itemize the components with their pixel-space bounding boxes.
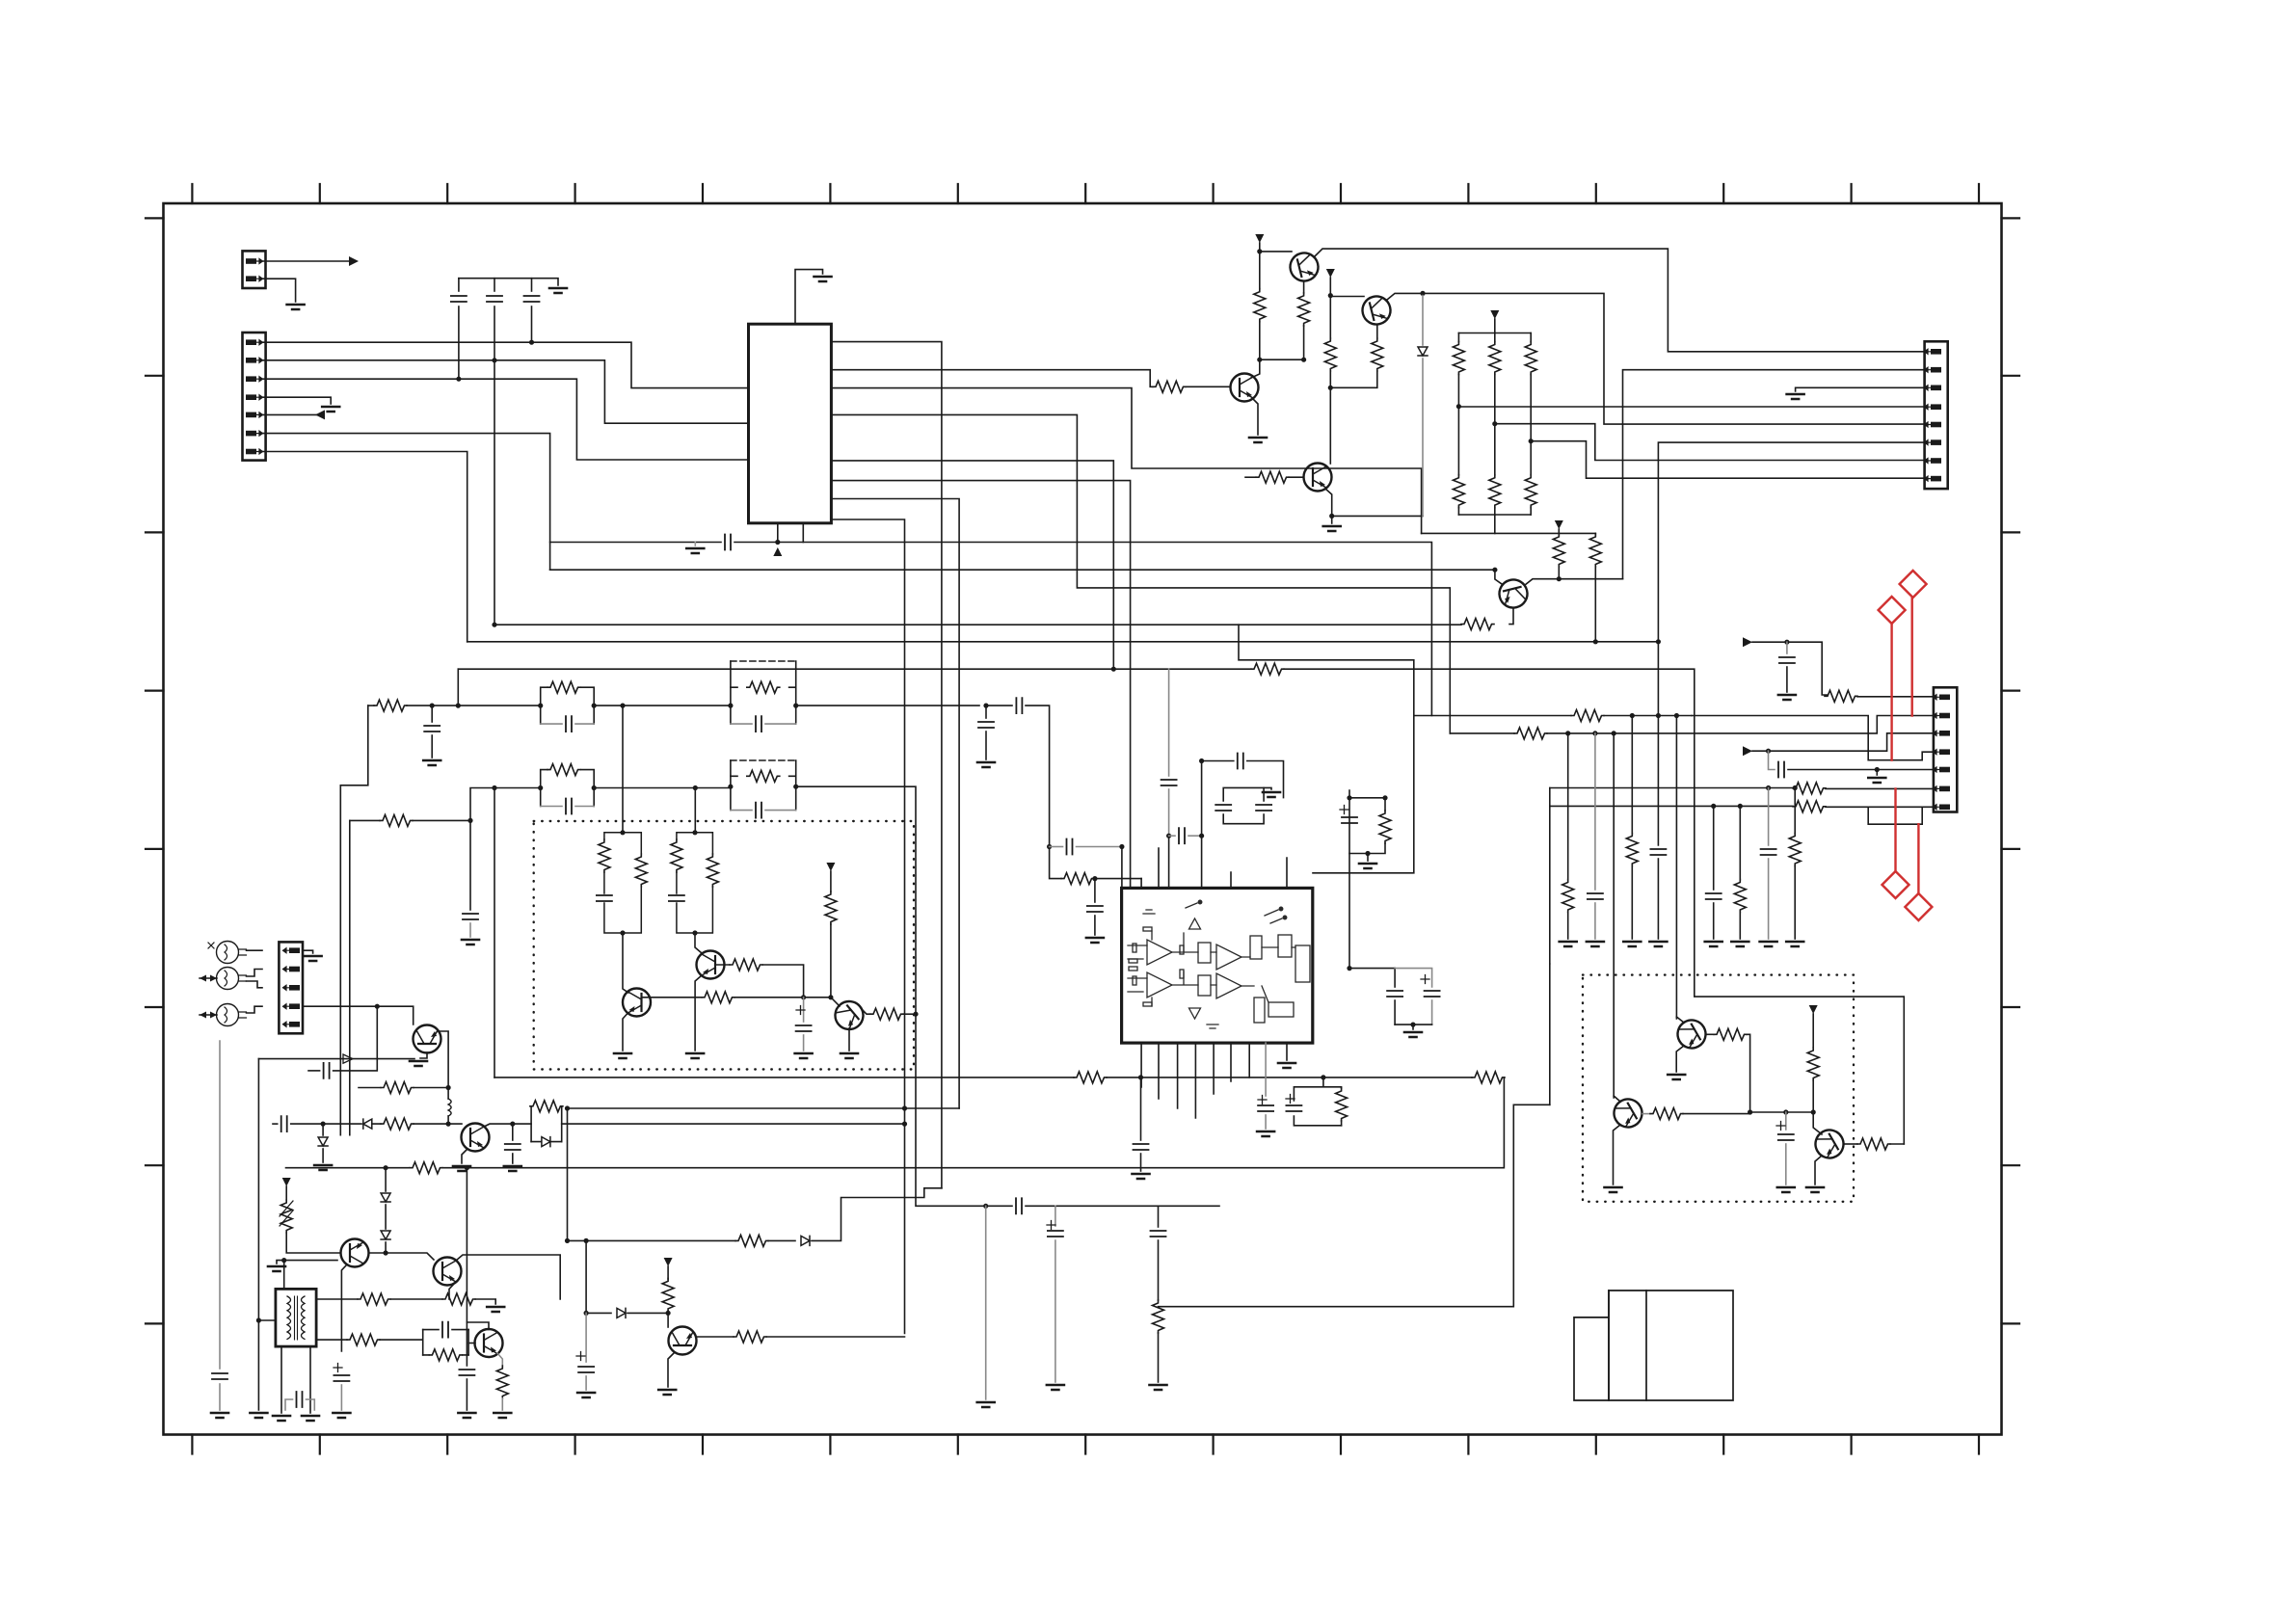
wire CN2 pin6 down to lower bus — [263, 434, 550, 571]
node — [492, 785, 496, 790]
red wire F3 — [1894, 788, 1896, 871]
ground — [549, 288, 567, 293]
resistor R12 — [1530, 441, 1532, 475]
IC IC1 — [749, 324, 832, 523]
node — [1783, 1109, 1788, 1114]
node — [775, 540, 780, 545]
ground stub IC2 — [1286, 1043, 1288, 1060]
wire resistor bottom bus — [1458, 515, 1531, 533]
wire Q8 emitter ground — [462, 1149, 467, 1163]
pin 2 of CN3 — [1925, 367, 1942, 373]
resistor R39 — [1472, 1072, 1505, 1083]
resistor R13 — [1461, 619, 1494, 630]
wire P2 down — [1329, 278, 1331, 296]
node — [1565, 731, 1570, 735]
transistor Q10 — [434, 1258, 462, 1286]
ground — [814, 277, 832, 281]
ground — [333, 1413, 350, 1418]
wire IC1 top pin to ground — [795, 270, 823, 325]
power arrow P6 — [826, 863, 835, 871]
block rect5 — [1295, 945, 1310, 982]
capacitor C14 — [308, 1070, 320, 1072]
wire Q3 emitter to ground — [1252, 398, 1258, 435]
wire Q6 base from bus — [1495, 570, 1502, 584]
pin 2 of CN4 — [1934, 713, 1951, 719]
node — [384, 1165, 388, 1170]
dotted block DB1 — [534, 821, 914, 1070]
ground — [1086, 938, 1104, 943]
wire bus 591 — [550, 569, 1495, 571]
ground — [1257, 1131, 1274, 1136]
wire 817 bus left — [470, 788, 541, 821]
ground — [1778, 695, 1796, 700]
node — [375, 1004, 380, 1009]
capacitor C12 — [669, 895, 684, 901]
wire W2 stepped — [1159, 1104, 1550, 1306]
capacitor C3 — [531, 279, 533, 291]
capacitor C4 — [725, 535, 731, 550]
wire IC1 pin right 6 — [831, 481, 1130, 889]
node — [902, 1105, 907, 1110]
resistor R34 — [442, 1293, 475, 1305]
wire resistor top bus — [1458, 333, 1531, 334]
wire vertical 513 lower — [494, 788, 495, 1078]
capacitor C20 plus — [334, 1364, 342, 1372]
resistor R50 — [1384, 798, 1386, 811]
wire Q10 emitter — [449, 1282, 456, 1299]
node — [1674, 713, 1679, 718]
wire Q5 emitter — [1325, 489, 1332, 516]
ground — [1760, 942, 1777, 946]
ground — [250, 1413, 267, 1418]
ground — [686, 548, 704, 553]
pin 4 of CN4 — [1934, 749, 1951, 755]
node — [692, 930, 697, 935]
capacitor C1 — [458, 279, 460, 291]
resistor R28 — [830, 871, 832, 891]
wire Q5 base resistor — [1245, 476, 1256, 478]
node — [1119, 844, 1124, 849]
power triangle up — [1189, 918, 1201, 929]
node — [983, 1204, 988, 1209]
ground stub — [1264, 787, 1271, 789]
capacitor C24 plus on vertical — [1340, 806, 1348, 814]
capacitor C16 to ground — [512, 1124, 514, 1140]
pin 3 of CN2 — [246, 376, 263, 382]
node — [592, 785, 597, 790]
wire CN2 pin5 to arrow — [263, 413, 319, 415]
node — [666, 1311, 671, 1316]
wire CN3 pin6 down — [1658, 442, 1924, 715]
transducer M1 — [217, 942, 239, 964]
resistor Rg4 to ground — [1794, 788, 1796, 835]
red flag diamond F1 — [1879, 571, 1933, 920]
node — [1529, 439, 1534, 443]
wire base bus — [1750, 1111, 1814, 1113]
pin 5 of CN5 — [283, 1022, 301, 1027]
node — [1347, 966, 1351, 971]
ground — [494, 1413, 511, 1418]
wire IC1 pin right 3 — [831, 388, 1421, 534]
capacitor C11 — [597, 895, 612, 901]
diode D3 to ground — [322, 1124, 324, 1135]
wire IC1 pin right 5 — [831, 461, 1113, 669]
resistor R6 — [1256, 471, 1289, 483]
capacitor C27 — [1215, 805, 1231, 811]
wire node up to bus 694 — [457, 669, 459, 705]
ground — [504, 1166, 521, 1171]
power arrow P3 — [1490, 310, 1499, 319]
node — [1199, 758, 1204, 763]
pin 1 of CN5 — [283, 947, 301, 953]
border frame — [164, 203, 2002, 1435]
node — [467, 818, 472, 823]
resistor Rg2 to ground — [1631, 716, 1633, 835]
ground — [795, 1053, 813, 1058]
red flag diamond F4 — [1905, 893, 1932, 920]
resistor R10 — [1457, 407, 1459, 475]
ground — [1806, 1187, 1824, 1192]
wire Q12 base right — [642, 997, 703, 998]
resistor R17 — [1793, 783, 1826, 794]
wire QD2 base right — [1642, 1113, 1650, 1115]
RC pair3 capacitor — [731, 723, 752, 725]
transformer T1 — [276, 1289, 316, 1346]
capacitor Cg1 to ground — [1594, 733, 1596, 890]
RD loop resistor — [531, 1106, 562, 1142]
red wire F4 — [1917, 824, 1919, 893]
node — [430, 704, 435, 708]
ground — [453, 1166, 470, 1171]
wire IC1 pin right 4 — [831, 414, 1450, 733]
node — [456, 704, 461, 708]
wire T1 bottom legs — [281, 1346, 310, 1413]
resistor R30 — [381, 1082, 414, 1094]
pin 3 of CN3 — [1925, 386, 1942, 391]
wire bus below IC1 — [550, 542, 721, 544]
wire to Q13 — [695, 933, 702, 953]
wire IC1 pin right 8 — [831, 519, 904, 1108]
RD loop diode — [542, 1137, 550, 1147]
ground stub — [1367, 854, 1369, 862]
wire IC2 pin to H1 — [1248, 1043, 1250, 1078]
node — [1557, 576, 1562, 581]
capacitor C34 series — [1016, 1198, 1022, 1213]
ground — [1047, 1385, 1064, 1390]
wire to CN3 pin4 — [1458, 406, 1924, 408]
transistor Q9 — [341, 1239, 369, 1267]
arrow pair — [200, 977, 217, 979]
wire Q14 emitter to ground — [848, 1028, 850, 1051]
block rect3 — [1250, 936, 1262, 959]
node — [1328, 386, 1333, 390]
node — [1328, 293, 1333, 298]
resistor R35 — [347, 1334, 380, 1345]
wire QD1 emitter down ground — [1676, 1046, 1684, 1072]
ground — [1278, 1063, 1295, 1068]
capacitor C15 — [273, 1123, 278, 1125]
pin 7 of CN3 — [1925, 458, 1942, 464]
wire vertical 1246 — [1201, 761, 1203, 889]
wire to Q8 — [414, 1123, 462, 1125]
resistor R21 — [350, 819, 380, 821]
wire bias 1211 — [286, 1167, 411, 1169]
ground — [305, 956, 322, 961]
ground — [1587, 942, 1604, 946]
R block B2 — [677, 833, 713, 933]
wire bus 648 — [494, 360, 1461, 625]
wire emitter to diode branch — [1332, 515, 1423, 517]
wire IC2 pin lines bottom — [1141, 1043, 1231, 1118]
pin 4 of CN3 — [1925, 404, 1942, 410]
resistor R45 — [1714, 1028, 1747, 1040]
resistor R25 — [671, 839, 682, 872]
wire P1 down — [1259, 243, 1261, 289]
resistor R27 — [730, 959, 762, 971]
resistor R23 — [635, 854, 647, 887]
wire CN5 pin1 ground — [303, 950, 313, 953]
wire vertical 588 lower — [567, 1108, 569, 1240]
wire to cap pair — [1349, 968, 1395, 970]
ground — [487, 1307, 504, 1312]
ground — [211, 1413, 228, 1418]
power arrow P8 — [664, 1258, 673, 1266]
wire IC2 pin lines top — [1141, 848, 1287, 888]
connector CN5 — [279, 942, 303, 1033]
wire R16 to pin1 — [1857, 696, 1934, 698]
wire CN2 pin7 down to bus 665 — [263, 452, 467, 642]
wire QD3 emitter ground — [1815, 1156, 1822, 1184]
left edge tick marks — [146, 218, 164, 1323]
ground — [314, 1165, 332, 1170]
wire Q4 collector down — [1376, 325, 1378, 338]
node — [492, 623, 496, 627]
parallel cap loop right of IC2 — [1223, 787, 1264, 823]
RC pair1 capacitor — [541, 723, 562, 725]
ground — [841, 1053, 858, 1058]
resistor R1 — [1153, 381, 1186, 392]
wire into IC2 — [1121, 847, 1123, 889]
wire to vertical — [762, 965, 804, 998]
wire CN2 pin2 to IC1 — [263, 360, 749, 423]
pin 3 of CN5 — [283, 985, 301, 991]
ground — [423, 760, 441, 765]
wire vertical 938 lower — [904, 1108, 906, 1334]
capacitor C32 plus — [1286, 1095, 1295, 1104]
capacitor C7 to ground — [431, 705, 433, 722]
resistor R51 — [1251, 663, 1284, 675]
capacitor C22 series — [1050, 846, 1063, 848]
wire T1 right to Q11 — [316, 1339, 347, 1341]
node — [1656, 713, 1661, 718]
wire CN2 pin4 to ground — [263, 397, 332, 404]
ground — [1623, 942, 1641, 946]
transistor Q12 — [623, 989, 651, 1017]
ground — [1777, 1187, 1795, 1192]
node on pin1 wire — [529, 340, 534, 345]
ground — [1560, 942, 1577, 946]
wire R3 down to node — [1251, 326, 1304, 378]
capacitor C2 — [494, 279, 495, 291]
internal wires — [1128, 931, 1295, 1006]
pin 6 of CN4 — [1934, 786, 1951, 792]
resistor R16 — [1825, 690, 1857, 702]
ground stub T1 — [277, 1261, 284, 1264]
switch contacts — [1186, 903, 1282, 923]
pin 6 of CN3 — [1925, 439, 1942, 445]
RC pair4 (dashed top) — [731, 759, 796, 761]
ground — [1787, 394, 1804, 399]
wire M2b jog — [247, 981, 263, 988]
vertical chain with caps — [1168, 669, 1170, 776]
ground — [977, 1402, 995, 1407]
wire left vertical 1 — [219, 1041, 221, 1369]
node — [1656, 639, 1661, 644]
capacitor C33 to ground — [1265, 1043, 1267, 1096]
label x — [208, 943, 214, 948]
node — [1111, 667, 1116, 672]
resistor R37 feed — [1050, 847, 1061, 879]
pin 5 of CN3 — [1925, 422, 1942, 428]
wire to ground — [1331, 516, 1333, 523]
bottom edge tick marks — [192, 1435, 1979, 1454]
power triangle down — [1189, 1008, 1201, 1019]
resistor R48 — [1857, 1138, 1890, 1150]
wire T1 left to vertical — [258, 1319, 276, 1321]
node — [281, 1258, 286, 1263]
ground — [462, 940, 479, 945]
power arrow P4 — [1555, 520, 1563, 529]
RC pair1 resistor — [541, 687, 595, 724]
wire M3 to CN5 — [247, 1006, 263, 1013]
wire CN1 pin1 to arrow — [262, 260, 349, 262]
wire CN3 pin3 to ground — [1796, 387, 1925, 391]
node — [384, 1250, 388, 1255]
node — [1329, 514, 1334, 519]
ground — [322, 407, 339, 412]
node — [620, 830, 625, 835]
resistor R41 — [735, 1235, 768, 1246]
wire long vertical to box2 QD1 — [1675, 716, 1677, 1020]
wire to CN3 pin8 — [1531, 441, 1924, 479]
wire H2 bus — [568, 1107, 960, 1109]
internal resistors — [1133, 944, 1136, 952]
capacitor Cg3 to ground — [1713, 806, 1715, 890]
diode D1 — [1418, 347, 1428, 356]
ground — [577, 1393, 595, 1397]
node — [793, 704, 798, 708]
signal arrow out — [349, 256, 359, 266]
node — [1811, 1109, 1816, 1114]
wire Q14 base — [831, 998, 840, 1006]
signal arrow in — [315, 410, 325, 419]
resistor R20 — [368, 705, 374, 706]
wire Q6 collector — [1525, 579, 1623, 585]
transistor Q11 — [475, 1329, 503, 1357]
node — [1138, 1075, 1143, 1079]
resistor R29 — [870, 1008, 903, 1020]
node — [465, 1165, 469, 1170]
node on pin2 wire — [492, 358, 496, 362]
block rect6 — [1254, 998, 1265, 1023]
wire Q15 collector out — [697, 1336, 734, 1338]
capacitor C18 — [212, 1373, 227, 1379]
ground — [458, 1413, 475, 1418]
ground — [686, 1053, 704, 1058]
wire Q11 collector — [467, 1322, 489, 1330]
transducer M2 — [217, 968, 239, 990]
resistor R2 — [1254, 289, 1266, 322]
wire QD2 emitter up — [1614, 1096, 1620, 1102]
resistor R44 — [1153, 1300, 1164, 1333]
CR loop capacitor — [423, 1330, 468, 1355]
node — [1875, 767, 1880, 772]
capacitor C25 — [1394, 969, 1396, 987]
ground — [287, 305, 305, 309]
wire QD1 collector — [1706, 1033, 1714, 1035]
wire QD1 emitter up — [1676, 1017, 1684, 1023]
wire arrow to CN4 pin1 — [1752, 642, 1828, 695]
wire Q2 emitter to CN3 pin1 — [1315, 249, 1925, 352]
resistor R19 — [1571, 710, 1604, 722]
pin 8 of CN3 — [1925, 476, 1942, 482]
node — [1047, 844, 1052, 849]
node — [256, 1317, 261, 1322]
wire QD3 base right — [1844, 1143, 1857, 1145]
node — [538, 704, 543, 708]
wire to vertical — [903, 1013, 916, 1015]
wire to Q4 base — [1330, 296, 1364, 298]
capacitor C28 — [1256, 805, 1271, 811]
resistor R11 — [1494, 424, 1496, 475]
ground — [1786, 942, 1803, 946]
node on pin3 wire — [456, 377, 461, 382]
wire R2 to node — [1259, 322, 1261, 360]
wire arrow2 to CN4 pin3 — [1752, 733, 1934, 751]
wire 1607 vertical lower — [1549, 964, 1551, 1104]
wire CN1 pin2 to ground — [262, 279, 296, 302]
capacitor C21 to ground — [1094, 879, 1096, 902]
wire node down into box1 — [694, 788, 696, 833]
wire Q4 emitter to CN3 pin5 — [1387, 293, 1925, 424]
wire loop around IC2 — [1239, 625, 1414, 873]
resistor R7 — [1457, 333, 1459, 342]
ground — [273, 1416, 290, 1421]
node — [1257, 358, 1262, 362]
wire H2 extension — [916, 1014, 1012, 1206]
resistor R3 — [1298, 293, 1310, 326]
wire Q5 collector — [1329, 387, 1331, 464]
node — [1784, 640, 1789, 645]
resistor R43 — [734, 1331, 766, 1343]
node — [1321, 1075, 1325, 1079]
arrow pair — [200, 1014, 217, 1016]
ground — [1404, 1032, 1422, 1037]
wire CN2 pin3 to IC1 — [263, 379, 749, 460]
wire bus742 resistor segment — [1414, 715, 1571, 717]
node — [983, 704, 988, 708]
wire R18 to pin7 — [1826, 806, 1934, 808]
transistor Q6 — [1496, 576, 1530, 610]
resistor R36 — [496, 1366, 508, 1398]
block rect4 — [1278, 935, 1292, 957]
node — [913, 1012, 918, 1017]
transistor Q8 — [462, 1124, 490, 1152]
resistor R38 — [1074, 1072, 1107, 1083]
wire Q15 emitter ground — [668, 1352, 675, 1387]
wire left vertical 2 — [257, 1059, 259, 1410]
power arrow P5 — [282, 1178, 291, 1186]
